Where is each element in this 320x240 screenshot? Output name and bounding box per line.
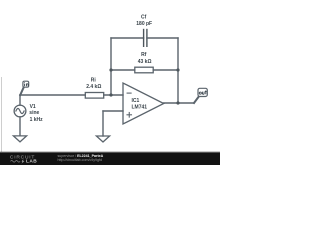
ground below V1 [13, 136, 26, 142]
wire Cf right [147, 37, 178, 39]
flag in box [23, 81, 29, 87]
op-amp minus sign [127, 92, 131, 94]
resistor Rf body [135, 67, 153, 73]
voltage source V1 sine glyph [16, 109, 24, 114]
wire feedback right vertical [177, 38, 179, 103]
svg-text:http://circuitlab.com/c9y9gfd: http://circuitlab.com/c9y9gfd [58, 158, 103, 162]
svg-text:Cf: Cf [141, 15, 147, 21]
wire Rf right [153, 69, 178, 71]
flag in pointer [20, 88, 23, 95]
svg-text:180 pF: 180 pF [136, 21, 152, 27]
svg-text:Ri: Ri [91, 77, 97, 83]
wire noninverting input [103, 110, 123, 112]
svg-text:V1: V1 [30, 104, 36, 110]
wire input row right [104, 94, 123, 96]
wire feedback left vertical [110, 38, 112, 95]
wire input row left [20, 94, 85, 96]
svg-text:LM741: LM741 [132, 105, 148, 111]
wire output [164, 102, 194, 104]
voltage source V1 circle [14, 105, 26, 117]
footer watermark bar [0, 153, 220, 165]
svg-text:43 kΩ: 43 kΩ [138, 59, 152, 65]
junction node Rf left [109, 68, 112, 71]
wire V1 bottom [19, 117, 21, 136]
resistor Ri body [85, 93, 103, 99]
op-amp plus sign [127, 114, 132, 116]
flag out pointer [194, 97, 198, 103]
wire V1 top [19, 95, 21, 105]
logo squiggle [11, 161, 21, 163]
junction node Rf right [176, 68, 179, 71]
svg-text:2.4 kΩ: 2.4 kΩ [86, 84, 101, 90]
svg-text:sine: sine [29, 110, 39, 116]
flag text out [199, 91, 206, 95]
wire noninverting down [102, 111, 104, 136]
ground below op-amp [96, 136, 109, 142]
junction node input [109, 93, 112, 96]
svg-text:Rf: Rf [141, 52, 147, 58]
faint left border artifact [1, 77, 3, 152]
wire Rf left [111, 69, 135, 71]
svg-text:LAB: LAB [26, 159, 37, 165]
op-amp IC1 triangle [123, 83, 164, 124]
capacitor Cf plates [143, 30, 145, 47]
flag out box [198, 88, 207, 96]
logo bolt [21, 159, 24, 163]
svg-text:IC1: IC1 [132, 98, 140, 104]
wire Cf left [111, 37, 144, 39]
flag text in [24, 82, 28, 86]
junction node output [176, 101, 179, 104]
svg-text:1 kHz: 1 kHz [30, 117, 44, 123]
